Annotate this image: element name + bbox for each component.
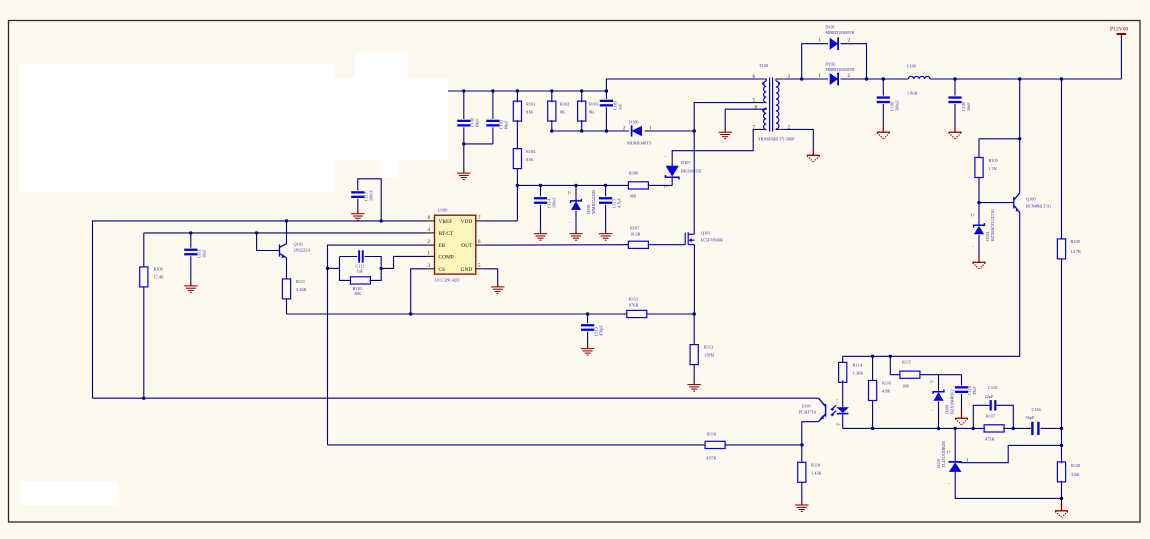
svg-text:FB: FB <box>439 243 446 249</box>
svg-text:R102: R102 <box>560 102 569 107</box>
svg-text:2N2222A: 2N2222A <box>294 248 312 253</box>
svg-text:TRNSFMR TY-506P: TRNSFMR TY-506P <box>758 137 795 142</box>
transistor Q101 mosfet <box>685 232 694 245</box>
wire D101 upper branch <box>802 44 828 79</box>
ground pin8 <box>719 128 732 139</box>
inductor L100 <box>908 76 930 79</box>
svg-text:22pF: 22pF <box>985 394 994 399</box>
wire cap C109 leads <box>954 79 956 96</box>
svg-text:R117: R117 <box>986 414 996 419</box>
wire opto led anode chain <box>842 356 844 362</box>
diode D101 <box>830 37 838 50</box>
svg-text:1.1K: 1.1K <box>989 166 998 171</box>
svg-text:BZX84C8V2LT1G: BZX84C8V2LT1G <box>990 209 995 241</box>
wire zener node y374.7 <box>920 374 961 376</box>
resistor R110 <box>350 277 370 284</box>
zener D104 <box>974 223 985 234</box>
svg-text:R106: R106 <box>629 171 639 176</box>
svg-text:R109: R109 <box>154 267 163 272</box>
wire CS rail y314 <box>287 313 627 315</box>
svg-text:3.16K: 3.16K <box>296 287 308 292</box>
svg-text:TL431AIDBZR: TL431AIDBZR <box>941 441 946 468</box>
svg-text:R108: R108 <box>1071 239 1080 244</box>
wire R105 bracket y138.8 <box>979 139 1020 158</box>
wire VDD rail y185.4 <box>517 184 628 186</box>
ground R118 <box>795 501 808 512</box>
svg-text:17.4K: 17.4K <box>154 275 166 280</box>
triangle ground C108 <box>877 125 890 138</box>
svg-text:3.6K: 3.6K <box>1071 472 1080 477</box>
ground C113 <box>581 345 594 356</box>
bulk capacitor C100 <box>457 120 470 127</box>
svg-text:4.7uF: 4.7uF <box>617 198 622 208</box>
svg-text:L100: L100 <box>907 64 916 69</box>
transformer pin stubs <box>764 79 784 130</box>
wire Q100 collector vertical <box>1019 79 1021 193</box>
svg-text:CS: CS <box>439 267 446 273</box>
svg-text:100nF: 100nF <box>369 190 374 201</box>
svg-text:R118: R118 <box>811 463 820 468</box>
wire bulk cap1 leads <box>463 91 465 119</box>
svg-text:FCH70N60F: FCH70N60F <box>701 238 724 243</box>
wire Q100 emitter down to opto rail <box>843 213 1020 357</box>
wire pin2 to ground <box>784 129 814 148</box>
wire RC loop <box>340 257 352 281</box>
IC pin names <box>439 219 473 273</box>
wire secondary main y79 <box>784 78 828 80</box>
svg-text:Q102: Q102 <box>294 242 304 247</box>
svg-text:1.43K: 1.43K <box>811 471 823 476</box>
optocoupler U101 <box>819 398 837 421</box>
ground C115 <box>599 230 612 241</box>
wire joining cap bottoms <box>464 143 493 145</box>
op IC U100 UCC28C42D body <box>435 215 476 274</box>
capacitor C117 <box>351 191 364 198</box>
ground GND pin <box>491 283 504 294</box>
resistor R113 <box>690 345 698 365</box>
svg-text:P12V00: P12V00 <box>1110 27 1129 33</box>
wire R118 leads <box>801 445 803 462</box>
svg-text:MBRD10300TR: MBRD10300TR <box>825 30 854 35</box>
wire C105 leads <box>605 91 607 99</box>
svg-text:BC848RLT1G: BC848RLT1G <box>1026 204 1051 209</box>
wire RT/CT y232.9 <box>144 232 427 234</box>
wire R102 leads <box>551 91 553 102</box>
capacitor C115 <box>599 197 612 204</box>
svg-text:56uF: 56uF <box>966 102 971 111</box>
svg-text:C110: C110 <box>988 385 997 390</box>
wire cap C108 leads <box>882 79 884 96</box>
junction dots right side <box>1018 137 1021 140</box>
IC pin numbers <box>428 216 482 269</box>
capacitor C112 <box>358 250 363 262</box>
svg-text:MBRD10300TR: MBRD10300TR <box>825 67 854 72</box>
bulk capacitor C101 <box>486 120 499 127</box>
wire opto emitter bracket <box>802 422 819 445</box>
ground C117 <box>351 210 364 221</box>
white redaction rectangle mid <box>335 78 449 161</box>
wire D109 leads <box>938 375 940 392</box>
wire R115 drop <box>890 356 899 374</box>
svg-text:68uF: 68uF <box>475 118 480 127</box>
svg-text:R107: R107 <box>630 226 640 231</box>
white redaction rectangle small step <box>380 160 398 177</box>
svg-text:MMBZ5245B: MMBZ5245B <box>591 190 596 214</box>
triangle ground C118 <box>955 411 968 424</box>
transformer right winding <box>776 81 779 129</box>
svg-text:158M: 158M <box>704 353 714 358</box>
resistor R114 <box>839 362 847 382</box>
svg-text:U100: U100 <box>438 208 449 213</box>
diode D106 <box>632 125 642 136</box>
capacitor C118 <box>955 386 968 393</box>
wire R103 leads <box>581 91 583 102</box>
capacitor C108 <box>877 96 890 103</box>
resistor R103 <box>578 101 586 121</box>
wire Q102 collector <box>286 221 288 244</box>
svg-text:R119: R119 <box>707 432 716 437</box>
svg-text:R116: R116 <box>882 381 892 386</box>
svg-text:4.8K: 4.8K <box>882 389 891 394</box>
svg-text:13.7K: 13.7K <box>1071 249 1083 254</box>
wire R109 chain <box>143 233 145 267</box>
wire TL431 anode <box>955 472 1061 499</box>
wire C114 leads <box>540 185 542 196</box>
svg-text:10R: 10R <box>629 194 636 199</box>
svg-text:475K: 475K <box>985 437 995 442</box>
svg-text:U101: U101 <box>802 404 812 409</box>
triangle ground transformer pin2 <box>807 148 820 161</box>
svg-text:VREF: VREF <box>439 219 453 225</box>
wire Q102 base tap <box>257 233 280 251</box>
wire FB to RC loop stub <box>328 267 340 269</box>
svg-text:R120: R120 <box>1071 463 1080 468</box>
svg-text:1nF: 1nF <box>618 103 623 110</box>
svg-text:R101: R101 <box>526 102 535 107</box>
transformer T100 <box>753 63 796 142</box>
svg-text:OUT: OUT <box>461 243 473 249</box>
svg-text:D106: D106 <box>629 120 639 125</box>
transistor Q100 BC848 <box>1010 193 1020 213</box>
transformer left upper winding <box>764 81 767 103</box>
svg-text:PC3H7TA: PC3H7TA <box>799 410 818 415</box>
svg-text:R104: R104 <box>526 149 536 154</box>
wire R111 bottom to CS rail <box>286 299 288 314</box>
svg-text:BK3304TR: BK3304TR <box>681 169 701 174</box>
svg-text:4.87K: 4.87K <box>706 456 718 461</box>
wire TL431 ref <box>962 445 1062 462</box>
wire CS pin riser <box>411 269 427 314</box>
wire pin7 to D107 <box>672 129 764 166</box>
resistor R109 <box>140 267 148 287</box>
diode D107 <box>665 166 679 180</box>
resistor R120 <box>1057 462 1065 482</box>
svg-text:560uF: 560uF <box>894 100 899 111</box>
resistor R106 <box>628 182 648 189</box>
triangle ground output <box>1055 504 1068 517</box>
svg-text:Q100: Q100 <box>1026 197 1036 202</box>
transformer left lower winding <box>764 108 767 130</box>
white redaction rectangle top protrusion <box>355 53 408 79</box>
wire TL431 cathode riser <box>954 428 956 461</box>
svg-text:C116: C116 <box>1032 407 1042 412</box>
svg-text:100nF: 100nF <box>552 197 557 208</box>
wire D104 anode to ground <box>978 235 980 256</box>
wire R105 bottom to base node <box>978 178 980 225</box>
wire A vref loop to opto collector y399 <box>93 397 819 399</box>
capacitor C113 <box>581 324 594 331</box>
svg-text:10K: 10K <box>354 291 361 296</box>
wire R101-R104 chain <box>516 91 518 102</box>
resistor R112 <box>627 310 647 317</box>
wire source of mosfet down <box>693 245 695 314</box>
ground bulk caps <box>457 169 470 180</box>
svg-text:UCC28C42D: UCC28C42D <box>435 278 460 283</box>
svg-text:81K: 81K <box>526 157 534 162</box>
svg-text:R105: R105 <box>989 158 998 163</box>
wire clamp rail y131 <box>552 130 629 132</box>
wire R116 leads <box>872 356 874 380</box>
wire OUT to gate <box>484 244 629 246</box>
svg-text:D102: D102 <box>825 61 835 66</box>
svg-text:10K: 10K <box>902 384 910 389</box>
wire COMP jog <box>381 256 426 268</box>
IC pin stubs <box>427 221 484 269</box>
svg-text:R115: R115 <box>902 360 911 365</box>
wire GND pin <box>484 269 498 283</box>
resistor R117 <box>984 425 1004 432</box>
svg-text:VDD: VDD <box>461 219 473 225</box>
svg-text:1.8uH: 1.8uH <box>907 91 918 96</box>
svg-text:56pF: 56pF <box>1026 415 1035 420</box>
capacitor C111 <box>184 249 197 256</box>
svg-text:R113: R113 <box>704 345 713 350</box>
ground C114 <box>534 230 547 241</box>
resistor R104 <box>513 149 521 169</box>
svg-text:10.2R: 10.2R <box>630 232 641 237</box>
ground D108 <box>569 230 582 241</box>
wire input bus y91 <box>448 90 606 92</box>
ground C111 <box>184 282 197 293</box>
resistor R111 <box>282 279 290 299</box>
wire D107 anode to VDD rail <box>671 178 673 186</box>
wire C115 leads <box>605 185 607 196</box>
wire drain vertical <box>694 103 764 235</box>
junction dots controller area <box>285 219 288 222</box>
transformer polarity dots <box>762 82 764 84</box>
wire pin8 ground bracket <box>725 109 764 128</box>
ground R113 <box>688 381 701 392</box>
svg-text:8K: 8K <box>560 110 566 115</box>
svg-text:BZX384B6V2: BZX384B6V2 <box>950 389 955 414</box>
svg-text:81K: 81K <box>526 110 534 115</box>
svg-text:1.36K: 1.36K <box>853 371 865 376</box>
svg-text:COMP: COMP <box>439 254 454 260</box>
wire VDD pin to riser <box>484 220 518 222</box>
resistor R102 <box>548 101 556 121</box>
capacitor C110 <box>990 400 997 410</box>
svg-text:RT/CT: RT/CT <box>439 231 455 237</box>
svg-text:R103: R103 <box>589 102 598 107</box>
capacitor C114 <box>534 197 547 204</box>
wire fb bottom rail y428.4 <box>843 427 986 429</box>
wire FB vertical <box>328 245 427 445</box>
diode D102 <box>830 73 838 86</box>
wire bus riser to pin6 <box>606 79 764 91</box>
junction dots secondary <box>800 77 803 80</box>
wire B FB to R119 y444.9 <box>328 444 705 446</box>
wire D106 to drain node <box>645 130 695 132</box>
white redaction rectangle left <box>19 64 335 193</box>
wire C111 leads <box>190 233 192 248</box>
svg-text:D101: D101 <box>825 24 835 29</box>
svg-text:R112: R112 <box>629 297 638 302</box>
triangle ground D104 <box>972 255 985 268</box>
zener D109 <box>933 390 944 401</box>
svg-text:R111: R111 <box>296 279 305 284</box>
svg-text:1uF: 1uF <box>357 269 364 274</box>
wire R113 leads <box>693 314 695 345</box>
wire R108 vertical chain <box>1061 79 1063 239</box>
wire D108 leads <box>575 185 577 201</box>
svg-text:68uF: 68uF <box>504 120 509 129</box>
wire bulk cap2 leads <box>492 91 494 119</box>
capacitor C105 <box>600 100 613 107</box>
resistor R118 <box>798 462 806 482</box>
wire C113 leads <box>587 314 589 323</box>
TL431 D110 <box>949 462 962 472</box>
wire C117 bracket <box>358 179 381 221</box>
wire C118 leads <box>961 375 963 386</box>
resistor R101 <box>513 101 521 121</box>
resistor R119 <box>705 441 725 448</box>
transistor Q102 2N2222A <box>280 244 287 258</box>
wire C110 bypass loop <box>973 405 989 428</box>
resistor R115 <box>900 371 920 378</box>
svg-text:R114: R114 <box>853 363 863 368</box>
wire VREF y220.9 <box>93 221 427 398</box>
svg-text:GND: GND <box>461 267 473 273</box>
svg-text:MURB340T3: MURB340T3 <box>627 141 651 146</box>
capacitor C116 <box>1031 422 1039 435</box>
svg-text:8K: 8K <box>589 110 595 115</box>
wire base node to Q100 base <box>979 202 1010 204</box>
triangle ground C109 <box>948 125 961 138</box>
wire Q102 emitter to R111 <box>286 258 288 279</box>
resistor R108 <box>1057 239 1065 259</box>
svg-text:976R: 976R <box>629 303 638 308</box>
svg-text:470pF: 470pF <box>599 325 604 336</box>
junction dots primary bus <box>462 89 465 92</box>
svg-text:39nF: 39nF <box>972 386 977 395</box>
svg-text:D107: D107 <box>681 160 691 165</box>
capacitor C109 <box>948 96 961 103</box>
svg-text:T100: T100 <box>759 63 768 68</box>
resistor R107 <box>628 241 648 248</box>
white redaction rectangle bottom-left <box>20 481 118 505</box>
resistor R116 <box>869 381 877 401</box>
svg-text:10nF: 10nF <box>202 249 207 258</box>
transformer core <box>769 78 771 132</box>
wire P12V00 riser <box>1120 37 1122 80</box>
svg-text:Q101: Q101 <box>701 231 711 236</box>
junction dots feedback area <box>800 443 803 446</box>
zener D108 <box>571 199 582 210</box>
resistor R105 <box>975 158 983 178</box>
